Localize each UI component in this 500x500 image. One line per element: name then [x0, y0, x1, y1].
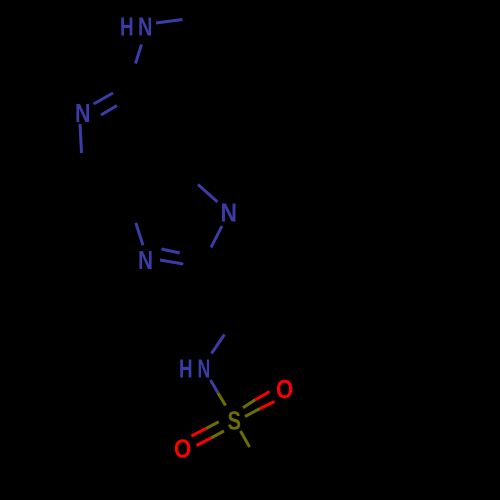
svg-text:N: N	[138, 245, 153, 275]
wire: double bond S=O upper-right, line 2 O half	[260, 402, 275, 409]
wire: bond N1(imidazole)-C2, N half	[211, 226, 222, 248]
wire: bond N5(pyridine)-C4, N half	[80, 124, 82, 153]
wire: bond S-CH3, S half	[241, 431, 250, 447]
wire: bond CH2-N(sulfonamide), N half	[212, 335, 225, 354]
wire: double bond S=O lower-left, line 2 S half	[211, 431, 224, 438]
wire: bond C7a-N1(imidazole), N half	[198, 185, 218, 203]
svg-text:O: O	[276, 374, 293, 404]
wire: bond N6(pyrrole NH)-C5a, N half	[136, 45, 142, 64]
wire: bond N6(pyrrole NH)-C7 methylene, N half	[156, 20, 183, 24]
svg-text:S: S	[228, 406, 242, 436]
wire: double bond N3(imidazole)=C2 main line, N half	[160, 260, 183, 264]
svg-text:N: N	[198, 354, 211, 384]
wire: double bond S=O lower-left, line 1 S half	[206, 422, 219, 429]
wire: double bond S=O upper-right, line 1 S half	[243, 400, 255, 408]
svg-text:H: H	[120, 12, 134, 42]
wire: double bond N3(imidazole)=C2 inner line	[162, 249, 180, 253]
svg-text:H: H	[179, 354, 193, 384]
svg-text:O: O	[174, 434, 191, 464]
wire: bond N3(imidazole)-C3a, N half	[136, 223, 143, 246]
wire: bond N(sulfonamide)-S, N half	[211, 380, 219, 393]
wire: double bond N5(pyridine)=C5a inner line	[101, 106, 117, 116]
wire: double bond S=O lower-left, line 2 O half	[197, 438, 212, 446]
node N: sulfonamide N-H label "HN"	[179, 354, 210, 384]
wire: double bond S=O upper-right, line 1 O half	[255, 392, 269, 400]
wire: double bond S=O lower-left, line 1 O half	[191, 429, 206, 437]
wire: bond N(sulfonamide)-S, S half	[218, 393, 226, 406]
svg-text:N: N	[221, 198, 238, 228]
wire: double bond N5(pyridine)=C5a main line, N half	[94, 93, 114, 104]
wire: double bond S=O upper-right, line 2 S half	[245, 409, 260, 417]
node N6: pyrrole N-H label "HN"	[120, 12, 153, 42]
svg-text:N: N	[75, 98, 91, 128]
svg-text:N: N	[138, 12, 153, 42]
